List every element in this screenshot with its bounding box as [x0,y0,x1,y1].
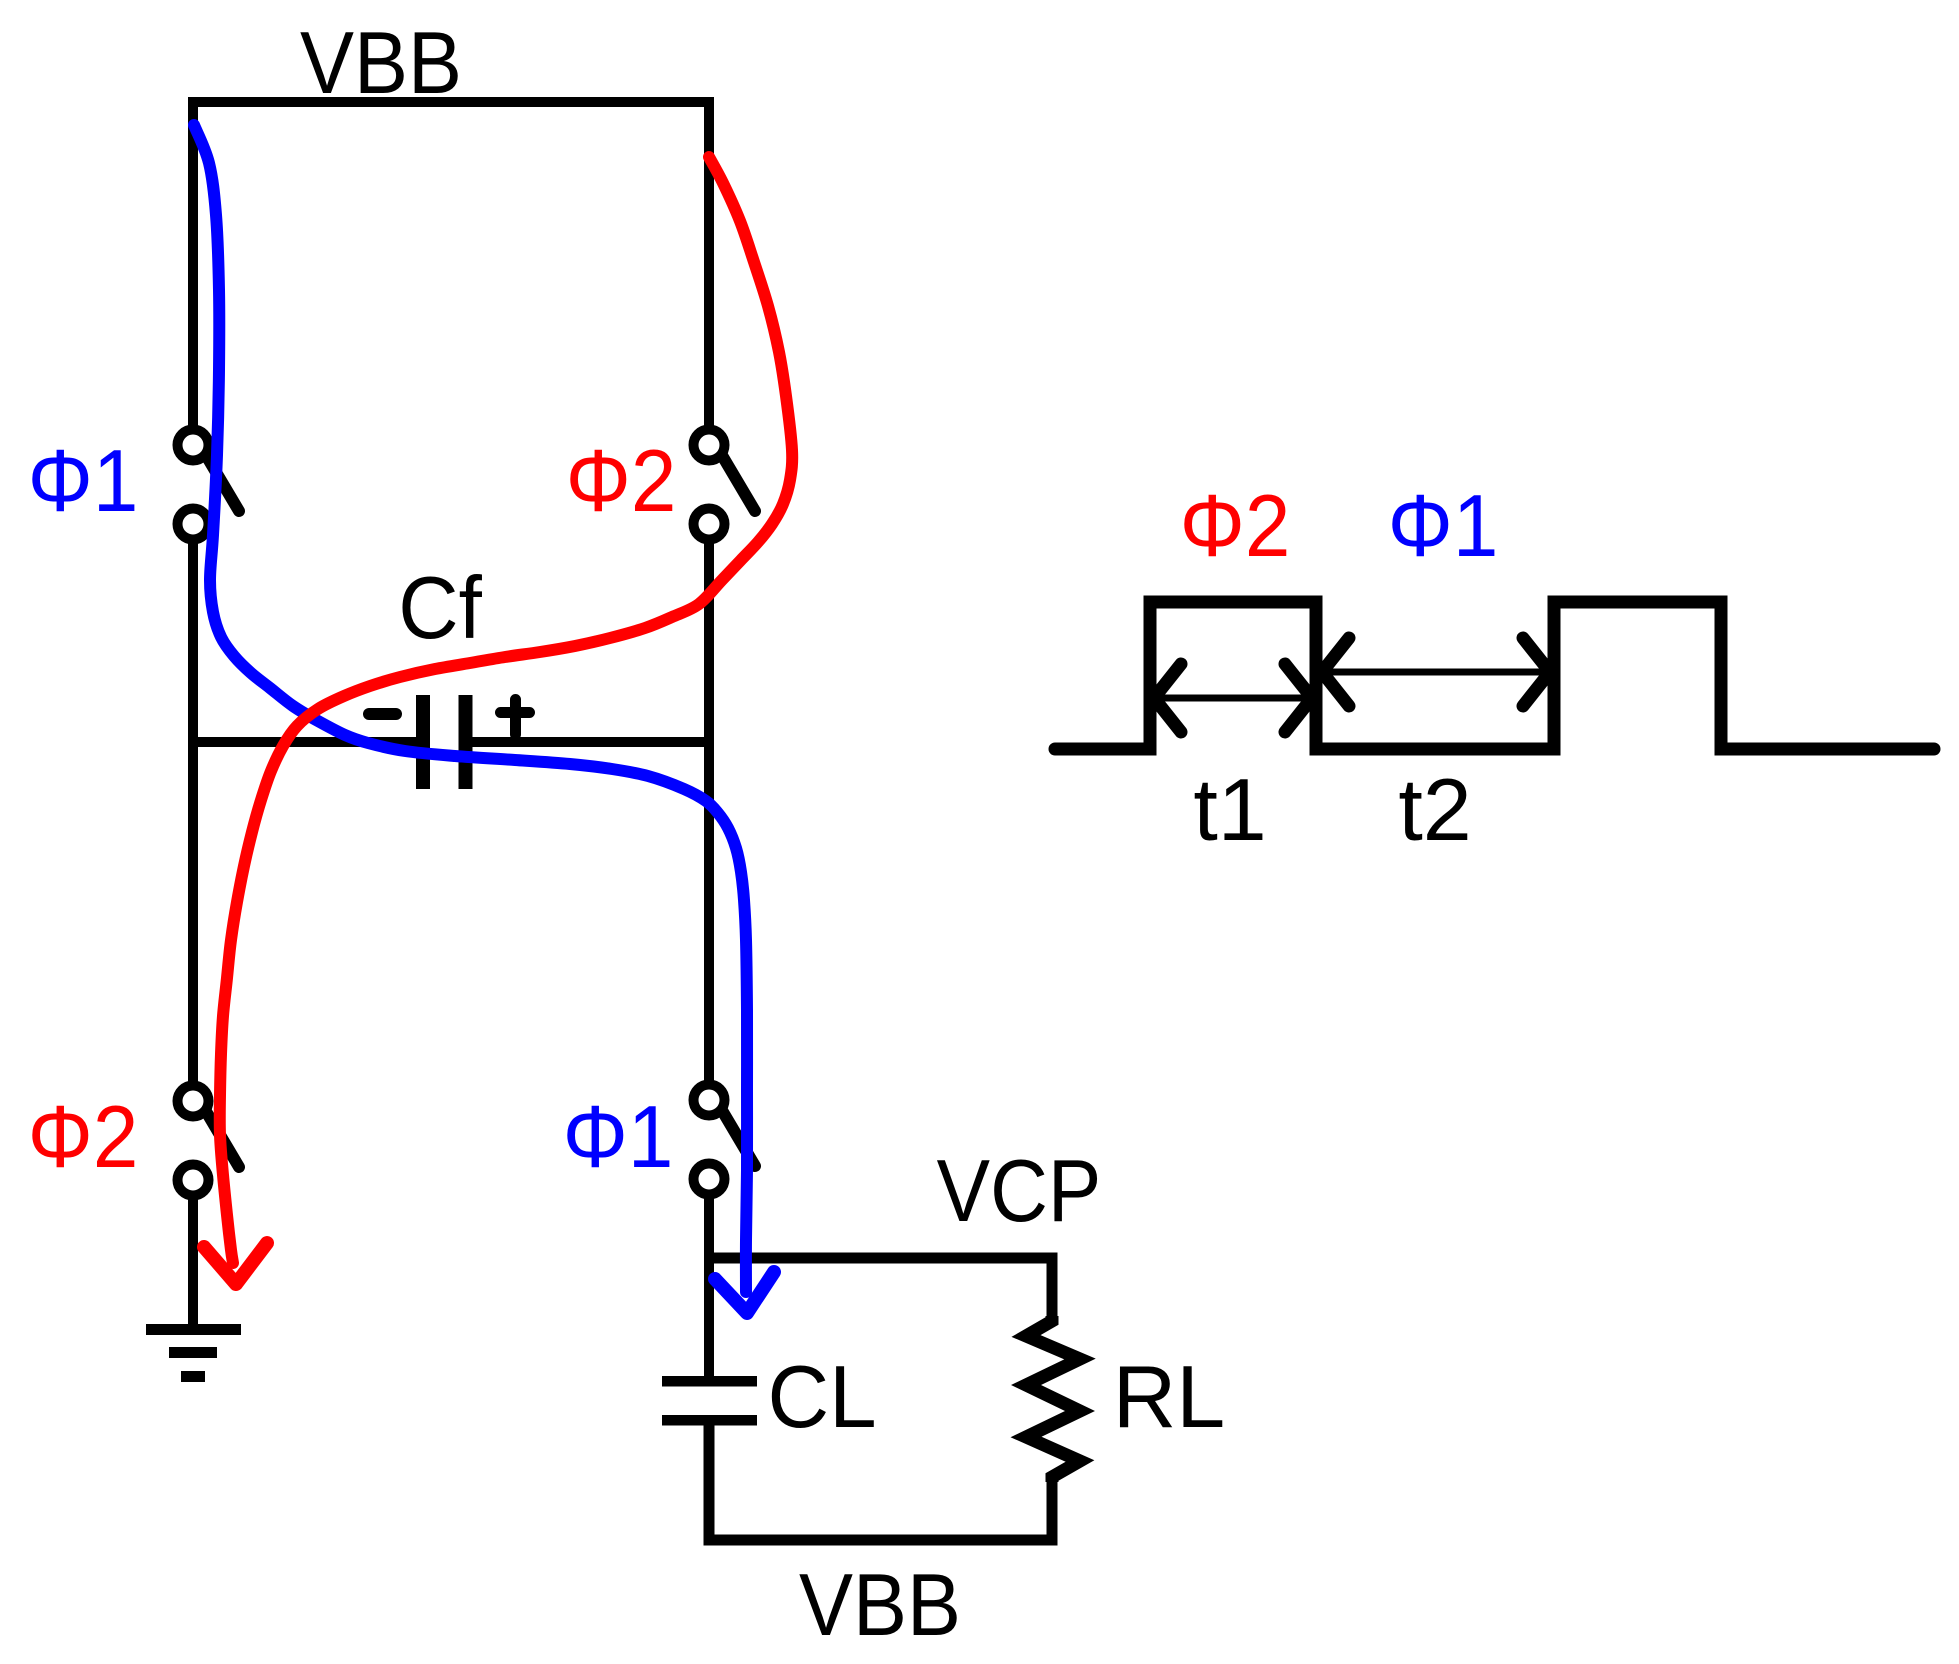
wire: ground stem [188,1200,198,1330]
wire: middle horizontal left of Cf [193,737,416,747]
resistor RL zigzag [1026,1316,1080,1482]
svg-text:Φ2: Φ2 [566,432,677,530]
capacitor Cf left plate [416,695,430,789]
arrowhead of blue current path [715,1272,774,1313]
svg-text:RL: RL [1113,1347,1226,1446]
svg-text:Φ1: Φ1 [28,432,139,530]
svg-text:t2: t2 [1398,760,1471,859]
minus sign of Cf [369,708,396,720]
capacitor Cf right plate [459,695,473,789]
switch S1 (phase 1, top left) [178,430,240,540]
svg-text:Φ2: Φ2 [28,1088,139,1186]
current path phi1 (blue curve) [194,125,747,1292]
wire: middle horizontal right of Cf [472,737,709,747]
svg-text:CL: CL [767,1349,876,1446]
svg-text:Φ2: Φ2 [1180,477,1291,575]
arrowhead of red current path [204,1243,267,1284]
ground [146,1330,241,1377]
dimension arrow t2 [1322,638,1550,706]
timing diagram waveform [1055,602,1934,749]
wire: left rail between S1 and middle node [188,544,198,1082]
wire: VCP horizontal, RL branch with resistor, bottom horizontal, CL bottom stub [709,1258,1052,1540]
svg-text:Φ1: Φ1 [563,1088,674,1186]
capacitor CL bottom plate [662,1415,757,1426]
svg-text:VBB: VBB [300,13,462,112]
wire: right rail from S4 down to CL top plate [704,1199,714,1377]
current path phi2 (red curve) [220,157,792,1263]
switch S4 (phase 1, bottom right) [694,1085,756,1195]
switch S2 (phase 2, top right) [694,430,756,540]
svg-text:t1: t1 [1193,760,1266,859]
wire: right rail between S2 and middle node [704,544,714,1081]
svg-text:VCP: VCP [937,1142,1102,1240]
svg-text:VBB: VBB [799,1555,961,1654]
plus sign of Cf [501,700,530,735]
dimension arrow t1 [1154,664,1312,732]
switch S3 (phase 2, bottom left) [178,1086,240,1196]
capacitor CL top plate [662,1376,757,1387]
svg-text:Cf: Cf [398,559,482,657]
svg-text:Φ1: Φ1 [1388,477,1499,575]
wire: top rail VBB horizontal with left and right verticals [193,102,709,427]
